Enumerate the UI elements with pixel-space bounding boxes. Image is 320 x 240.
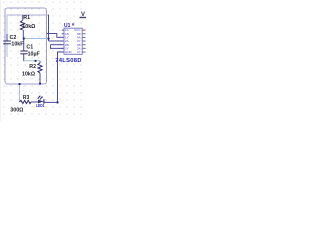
svg-text:U1: U1 <box>64 23 71 29</box>
svg-text:300Ω: 300Ω <box>10 107 24 113</box>
svg-text:10kΩ: 10kΩ <box>22 72 36 78</box>
svg-text:10µF: 10µF <box>28 52 41 58</box>
svg-text:R1: R1 <box>23 15 30 21</box>
svg-text:R2: R2 <box>29 64 36 70</box>
svg-text:C2: C2 <box>10 35 17 41</box>
svg-text:GND: GND <box>65 50 73 54</box>
svg-text:10kF: 10kF <box>11 42 24 48</box>
svg-text:R3: R3 <box>23 95 30 101</box>
svg-text:74LS08D: 74LS08D <box>55 58 82 64</box>
svg-text:3Y: 3Y <box>77 50 81 54</box>
svg-text:C1: C1 <box>26 44 33 50</box>
svg-text:V: V <box>81 12 85 18</box>
svg-text:LED1: LED1 <box>36 103 45 108</box>
svg-text:10kΩ: 10kΩ <box>22 24 36 30</box>
